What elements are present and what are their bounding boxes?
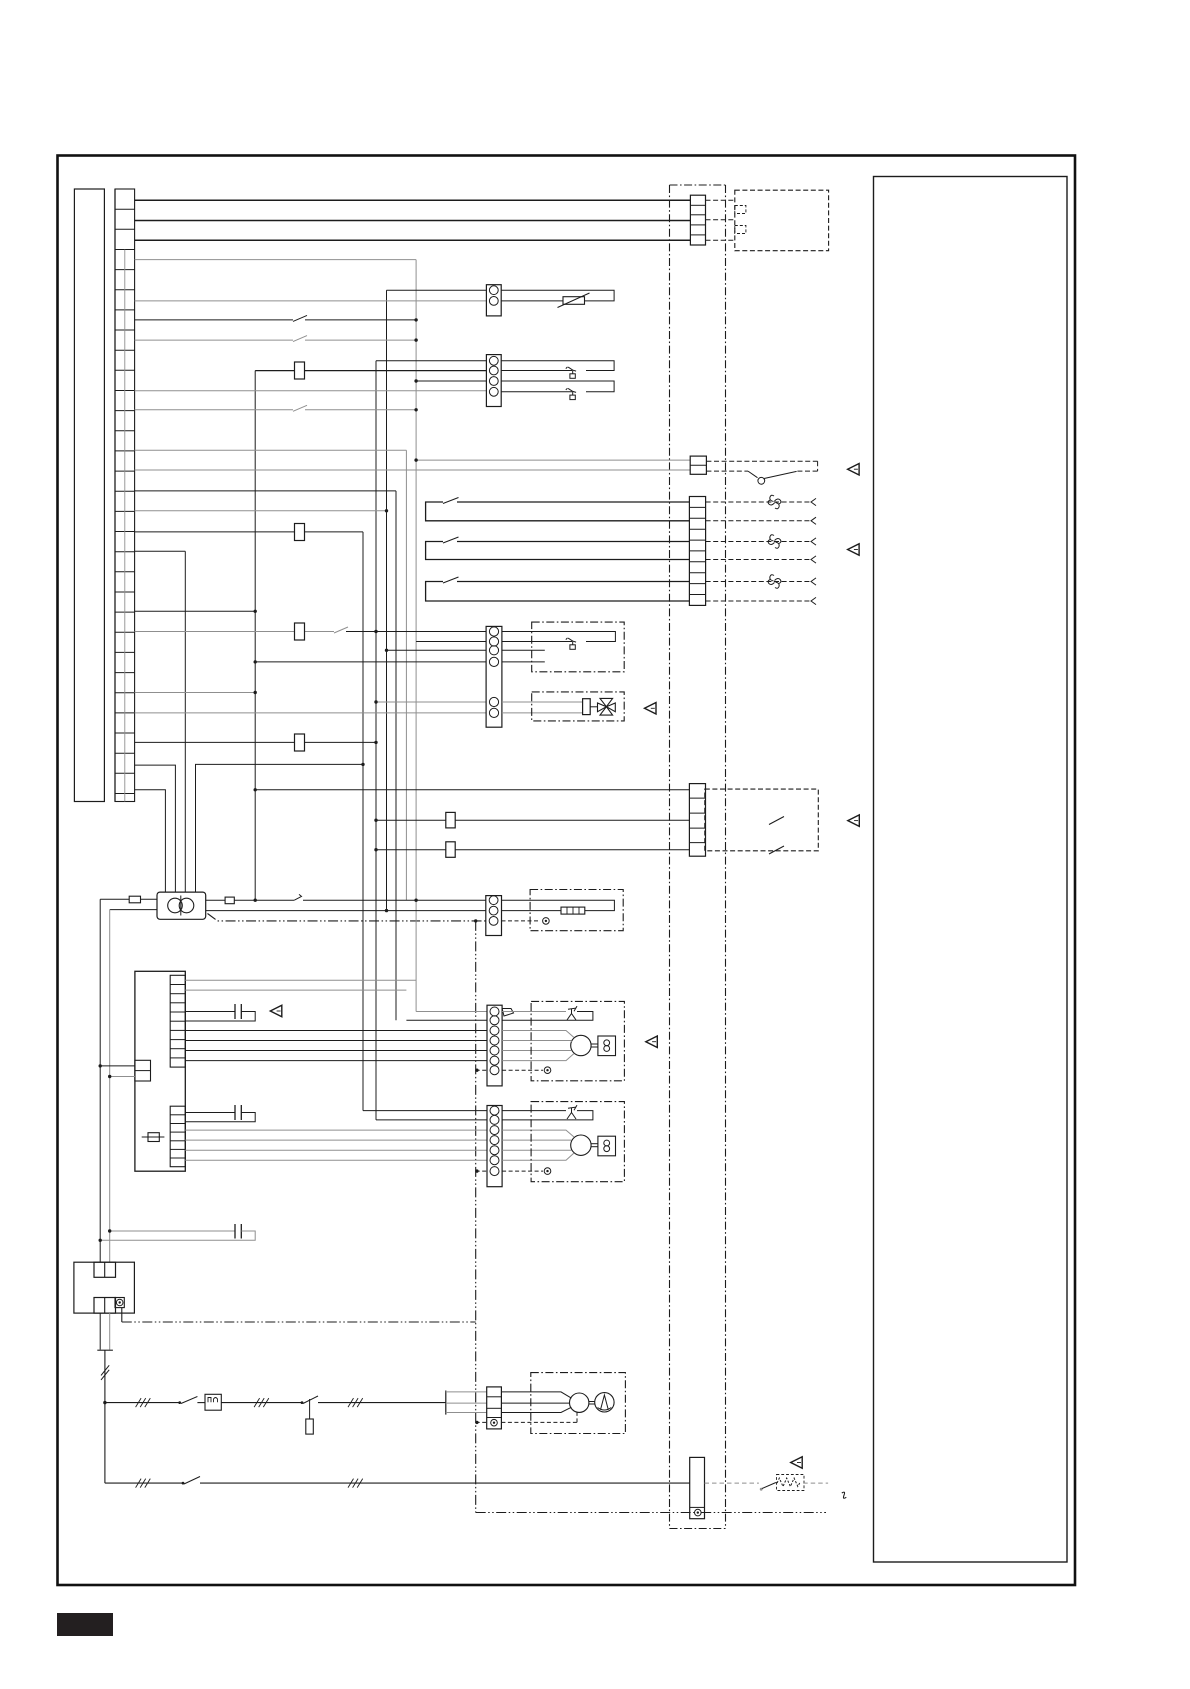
terminal block TB outer	[74, 189, 104, 802]
stub pin3	[502, 649, 545, 651]
boundary channel bottom	[670, 1528, 726, 1530]
defrost thermostat loop	[502, 632, 616, 642]
T1 secondary lead 2	[206, 910, 486, 912]
contact a	[769, 817, 784, 825]
contact on T1 lead	[294, 894, 301, 900]
dash-dot box defrost	[532, 622, 625, 672]
motor2 run capacitor	[598, 1136, 616, 1156]
corner feeds motor1	[416, 1011, 487, 1013]
terminal strip divider	[124, 250, 126, 802]
defrost thermostat switch	[566, 638, 568, 640]
PCB feed 1	[100, 1065, 135, 1067]
wire to CN3 pin1	[416, 459, 690, 461]
wire L1	[135, 199, 691, 201]
callout triangle A7	[791, 1457, 803, 1469]
wire to CN-AC pin1	[255, 789, 689, 791]
drop component (coil)	[306, 1419, 314, 1434]
motor1 earth dash	[476, 1069, 487, 1071]
dash-dot box motor1	[531, 1001, 624, 1080]
dashed stubs to indoor	[706, 199, 735, 201]
sensor loop	[502, 900, 615, 910]
T1 secondary lead 1	[206, 899, 225, 901]
fan wire loop 3	[426, 582, 690, 602]
fan motor M2	[768, 535, 781, 549]
connector CN1	[486, 285, 501, 316]
connector CN-COMP	[487, 1387, 502, 1429]
fan motor M3	[768, 575, 781, 589]
compressor leads	[446, 1391, 487, 1393]
unit boundary line	[208, 914, 486, 921]
TB2 upper cells	[94, 1262, 116, 1277]
pressure switch 63H1 loop	[501, 361, 614, 371]
wire t15 black corner	[135, 550, 186, 552]
thermistor TH1 loop	[501, 290, 614, 301]
PCB connector strip lower	[170, 1106, 185, 1167]
wire CN1 pin1 feed	[387, 289, 487, 291]
unit boundary vertical	[475, 921, 477, 1513]
connector CN-M2	[487, 1106, 502, 1187]
TB2 earth cell	[115, 1298, 124, 1308]
solenoid valve leads	[502, 701, 583, 703]
wire EEV pin2	[416, 641, 486, 643]
wire t1 gray	[135, 259, 417, 261]
terminal lug 2	[225, 897, 234, 904]
wire SV pin6	[135, 712, 487, 714]
wire t4 with contact	[135, 339, 293, 341]
wire SV pin5	[376, 701, 486, 703]
wire CN2 pin4 feed	[135, 390, 487, 392]
wire t8 with contact	[135, 409, 293, 411]
connector CN-M1	[487, 1005, 502, 1086]
wire t20 gray	[135, 692, 256, 694]
bus B7 x255	[254, 371, 256, 900]
pressure switch 63PH	[748, 471, 758, 478]
valve rotor	[598, 698, 616, 715]
thermistor TH1	[563, 297, 585, 305]
boundary channel top	[670, 184, 726, 186]
unit boundary bottom-left	[122, 1321, 476, 1323]
T1 primary lead 2	[110, 909, 157, 911]
fan dashed lead 2	[706, 520, 812, 522]
wire EEV pin4	[255, 661, 486, 663]
bus B1 x363	[362, 532, 364, 1111]
fuse F1	[295, 362, 305, 379]
wire CN2 pin3 feed	[416, 380, 486, 382]
bus B8 x185	[184, 551, 186, 892]
page number block	[57, 1613, 113, 1636]
power wire 1	[103, 1401, 106, 1404]
fuse F2	[295, 524, 305, 541]
connector CN-AC stack	[689, 784, 705, 857]
power wire 2	[105, 1482, 183, 1484]
connector CN4	[486, 896, 502, 936]
splice bar 2	[445, 1391, 447, 1415]
bus B2 x376	[375, 361, 377, 1120]
capacitor C1 loop	[185, 1011, 235, 1013]
TB2 lower cells	[94, 1298, 116, 1314]
switch 2	[182, 1482, 185, 1485]
sensor body	[561, 907, 585, 914]
pressure switch 63H2 loop	[501, 381, 614, 392]
PCB to fan motor1 wires	[185, 1030, 487, 1032]
wire t13 gray	[135, 510, 387, 512]
dash-dot box compressor	[531, 1373, 626, 1434]
terminal strip ticks	[115, 209, 135, 793]
splice bar	[97, 1349, 113, 1351]
terminal strip column	[115, 189, 135, 802]
connector CN3	[690, 456, 706, 474]
compressor motor leads	[501, 1392, 571, 1398]
fan dashed lead 5	[706, 581, 812, 583]
motor1 M	[571, 1035, 591, 1055]
border frame	[58, 156, 1076, 1586]
legend box	[874, 177, 1068, 1563]
callout triangle A3	[645, 703, 657, 715]
PCB internal fuse F7	[142, 1136, 165, 1138]
wire t12 black	[135, 490, 396, 492]
dashed lead to switch bottom	[706, 470, 748, 472]
indoor unit dashed box	[735, 190, 829, 251]
connector CN2	[486, 355, 501, 407]
heater dashed lead 2	[803, 1482, 828, 1484]
connector CN-MAIN	[690, 195, 705, 245]
pressure switch 63H2	[566, 388, 568, 390]
wire to CN3 pin2	[135, 469, 691, 471]
fan dashed lead 4	[706, 559, 812, 561]
fan wire loop 2	[426, 542, 690, 560]
supply pair drop	[99, 1313, 101, 1350]
unit boundary bottom-right	[476, 1512, 826, 1514]
wire t2 gray to CN1 pin2	[135, 300, 487, 302]
wire t3 with contact	[135, 319, 293, 321]
boundary channel left	[669, 185, 671, 1529]
PCB feed 2	[110, 1076, 135, 1078]
motor1 capacitor link	[591, 1043, 598, 1045]
fan dashed lead 1	[706, 501, 812, 503]
heater dashed lead	[705, 1482, 759, 1484]
bus B3 x386.5	[386, 290, 388, 910]
wire t24 corner down	[135, 765, 176, 892]
PCB out gray 2	[185, 989, 406, 991]
power terminal block TB2	[74, 1262, 134, 1313]
wire t9 gray	[135, 449, 407, 451]
capacitor C3 loop	[110, 1230, 235, 1232]
compressor motor M	[570, 1393, 589, 1412]
terminal block inner rail	[114, 189, 116, 802]
T1 primary lead 1	[100, 898, 129, 900]
shield earth lead	[502, 920, 541, 922]
PCB input connector	[135, 1060, 151, 1081]
earth screw	[116, 1299, 123, 1306]
motor1 run capacitor	[598, 1036, 616, 1056]
fan motor M1	[768, 495, 781, 509]
pressure switch 63H1	[566, 367, 568, 369]
tilde mark	[842, 1492, 847, 1498]
crankcase heater	[777, 1478, 800, 1486]
callout triangle A2	[848, 544, 860, 556]
fuse F4	[295, 734, 305, 751]
connector CN-FAN stack	[689, 497, 705, 606]
fan dashed lead 3	[706, 541, 812, 543]
fuse F3	[295, 623, 305, 640]
pin1 flag	[502, 1009, 513, 1017]
supply single drop	[104, 1350, 106, 1402]
motor2 earth dash	[476, 1170, 487, 1172]
wire relay line3 + fuse F6	[376, 849, 689, 851]
terminal lug 1	[129, 896, 140, 903]
PCB connector strip upper	[170, 975, 185, 1067]
fan dashed lead 6	[706, 600, 812, 602]
motor1 leads	[502, 1031, 574, 1038]
indoor tab 1	[735, 206, 746, 214]
wire t25 corner down	[135, 790, 166, 892]
heater switch	[760, 1488, 763, 1491]
switch with drop component	[301, 1401, 304, 1404]
unit boundary junction	[474, 919, 477, 922]
motor1 protector loop	[502, 1011, 566, 1013]
motor2 protector loop	[502, 1110, 566, 1112]
shield earth	[543, 918, 550, 925]
fan wire loop 1	[426, 502, 690, 521]
fuse F5	[446, 812, 455, 828]
indoor tab 2	[735, 226, 746, 234]
wire t16 black	[135, 610, 256, 612]
callout triangle A5	[270, 1005, 282, 1017]
compressor earth dash	[476, 1421, 487, 1423]
cable marks	[101, 1370, 109, 1380]
compressor link	[589, 1401, 595, 1403]
PCB to fan motor2 wires	[185, 1129, 487, 1131]
capacitor C2 loop	[185, 1112, 235, 1114]
dashed box AC loads	[705, 789, 819, 851]
fuse holder	[205, 1394, 221, 1410]
PCB main block	[135, 971, 185, 1171]
bus B6 x416	[415, 260, 417, 1012]
dashed loop right	[817, 461, 819, 471]
callout triangle A6	[646, 1036, 658, 1048]
corner feeds motor2	[363, 1110, 487, 1112]
motor2 M	[571, 1135, 591, 1155]
compressor body	[595, 1393, 614, 1412]
dash-dot box motor2	[531, 1102, 624, 1182]
wire to bus B1	[196, 764, 364, 892]
wire relay line2 + fuse F5	[376, 819, 689, 821]
contact b	[769, 846, 784, 854]
disconnect switch	[178, 1401, 181, 1404]
connector CN-EEV	[486, 626, 502, 727]
wire CN2 pin1 feed	[376, 360, 486, 362]
bus B5 x406	[405, 450, 407, 900]
motor2 leads	[502, 1130, 574, 1137]
dashed lead to switch top	[706, 460, 817, 462]
PCB out gray 1	[185, 979, 416, 981]
connector CN-H	[690, 1457, 705, 1518]
solenoid coil	[583, 699, 591, 715]
wire EEV pin3	[387, 649, 487, 651]
motor2 capacitor link	[591, 1143, 598, 1145]
wire CN2 pin2 feed + fuse F1	[255, 370, 486, 372]
wire L2	[135, 220, 691, 222]
wire EEV pin1 + fuse F3 + contact	[135, 631, 334, 633]
wire t14 + fuse F2	[135, 531, 363, 533]
stub pin4	[502, 661, 545, 663]
wire L3	[135, 239, 691, 241]
fuse F6	[446, 842, 455, 858]
dash-dot box valve	[532, 692, 625, 721]
left drop wires	[99, 899, 101, 1262]
callout triangle A1	[848, 463, 860, 475]
dash-dot box sensor	[530, 890, 623, 931]
boundary channel right	[725, 185, 727, 1529]
unit boundary stub from earth	[121, 1308, 123, 1322]
bus B4 x396	[395, 491, 397, 1020]
wire t23 + fuse F4	[135, 741, 376, 743]
transformer T1	[157, 892, 206, 919]
callout triangle A4	[848, 815, 860, 827]
